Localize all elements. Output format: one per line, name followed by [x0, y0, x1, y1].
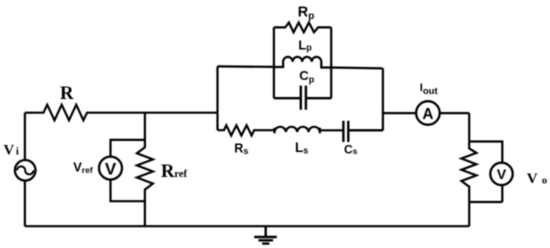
wire outer right rail	[382, 68, 384, 130]
meter V_o circle	[490, 163, 512, 185]
meter V_ref circle	[99, 157, 122, 180]
wire V_ref bottom	[111, 180, 145, 202]
wire right feed	[331, 66, 383, 69]
svg-text:V: V	[497, 167, 507, 183]
wire bottom	[25, 225, 469, 227]
wire output rail with load resistor	[461, 113, 476, 226]
wire V_i rail top	[24, 113, 26, 160]
svg-text:A: A	[422, 106, 433, 123]
svg-text:V: V	[105, 160, 117, 179]
svg-text:Vo: Vo	[527, 171, 547, 187]
wire voltmeter bottom	[469, 185, 502, 202]
inductor L_p	[274, 57, 331, 68]
svg-text:Cp: Cp	[299, 68, 314, 84]
inductor L_s	[275, 127, 344, 134]
meter I_out circle	[416, 101, 440, 125]
svg-text:Cs: Cs	[344, 143, 358, 157]
capacitor C_s	[343, 121, 383, 142]
wire top main with resistor R	[25, 105, 218, 121]
svg-text:Lp: Lp	[298, 37, 312, 52]
source V_i sine	[17, 166, 33, 174]
svg-text:Iout: Iout	[420, 82, 439, 97]
svg-text:Vref: Vref	[73, 160, 93, 175]
svg-text:Rs: Rs	[234, 142, 248, 157]
wire left feed	[218, 65, 274, 68]
wire outer left rail	[216, 66, 218, 130]
wire ammeter left	[383, 112, 416, 114]
wire inner left rail	[273, 27, 275, 98]
svg-text:Ls: Ls	[295, 140, 308, 155]
resistor R_s	[218, 125, 275, 135]
wire R_ref rail with resistor R_ref	[137, 113, 153, 227]
resistor R_p	[274, 23, 331, 33]
wire V_ref top	[111, 140, 145, 157]
svg-text:Vi: Vi	[4, 143, 19, 159]
wire V_i rail bottom	[24, 181, 26, 227]
wire inner right rail	[330, 27, 332, 98]
wire voltmeter top	[469, 142, 502, 163]
svg-text:Rref: Rref	[161, 162, 188, 182]
wire ammeter right	[440, 112, 470, 114]
ground	[254, 226, 277, 243]
svg-text:Rp: Rp	[298, 4, 315, 22]
source V_i circle	[15, 160, 36, 181]
svg-text:R: R	[60, 83, 74, 104]
capacitor C_p	[274, 86, 331, 110]
